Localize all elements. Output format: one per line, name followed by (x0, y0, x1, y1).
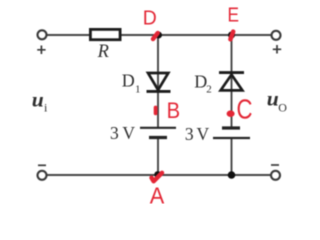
terminal top-right (272, 31, 281, 40)
junction dot bottom of D2 branch (228, 171, 236, 179)
junction dot node D (155, 32, 162, 39)
junction dot node E (228, 32, 235, 39)
svg-text:B: B (167, 98, 181, 123)
svg-text:O: O (278, 101, 287, 115)
diode D1 (cathode down) (147, 73, 171, 91)
svg-text:3: 3 (110, 123, 119, 143)
svg-text:u: u (32, 88, 44, 112)
node E red tick (230, 32, 233, 40)
svg-text:R: R (97, 42, 109, 62)
battery V2 (3V, long bar down) (213, 128, 250, 138)
node D red tick (153, 33, 158, 39)
wire bottom rail (47, 174, 271, 176)
wire branch D1 upper (node D to battery V1) (157, 35, 159, 128)
terminal bottom-right (271, 171, 280, 180)
plus sign top-right (273, 45, 281, 54)
terminal bottom-left (38, 171, 47, 180)
minus sign bottom-right (271, 164, 279, 166)
wire top rail right segment (121, 34, 272, 36)
plus sign top-left (37, 46, 45, 55)
resistor R body (90, 29, 120, 39)
minus sign bottom-left (38, 164, 46, 166)
svg-text:V: V (197, 124, 210, 144)
svg-text:V: V (122, 123, 135, 143)
svg-text:A: A (150, 183, 165, 205)
wire top rail left segment (47, 34, 90, 36)
svg-text:2: 2 (206, 83, 212, 95)
svg-text:D: D (194, 71, 207, 91)
svg-text:E: E (228, 5, 240, 27)
junction dot node A (154, 171, 161, 178)
node A red tick (152, 173, 163, 182)
svg-text:C: C (237, 94, 253, 125)
battery V1 (3V, long bar up) (140, 128, 176, 138)
svg-text:u: u (267, 87, 279, 111)
svg-text:i: i (44, 101, 48, 115)
wire branch D2 upper (node E to battery V2) (231, 35, 233, 128)
terminal top-left (38, 30, 47, 39)
svg-text:D: D (143, 7, 157, 29)
svg-text:1: 1 (135, 83, 141, 95)
svg-text:D: D (122, 70, 135, 90)
diode D2 (cathode up) (219, 73, 244, 91)
node B red tick (154, 108, 158, 114)
wire branch D1 lower (battery V1 to node A) (157, 138, 159, 176)
svg-text:3: 3 (185, 124, 194, 144)
wire branch D2 lower (battery V2 to bottom rail) (231, 138, 233, 175)
node C red dot (227, 110, 235, 117)
